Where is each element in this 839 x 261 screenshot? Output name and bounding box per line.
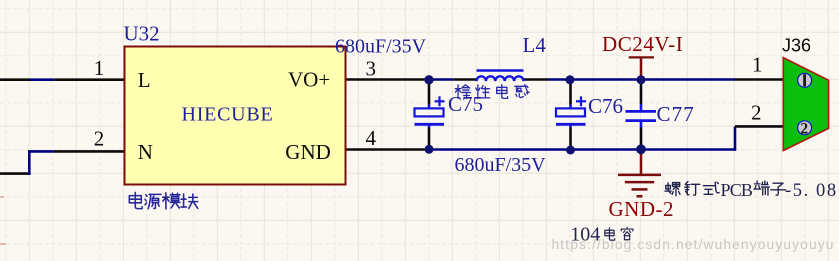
svg-text:DC24V-I: DC24V-I <box>602 32 683 56</box>
svg-text:PCB: PCB <box>721 180 753 200</box>
svg-text:-5. 08: -5. 08 <box>785 181 838 201</box>
svg-text:2: 2 <box>94 127 105 151</box>
svg-text:680uF/35V: 680uF/35V <box>455 154 547 176</box>
svg-text:L: L <box>138 68 151 92</box>
svg-text:2: 2 <box>751 101 762 125</box>
svg-text:C76: C76 <box>588 94 623 118</box>
svg-text:104: 104 <box>570 223 600 245</box>
svg-text:C77: C77 <box>657 102 695 126</box>
svg-text:U32: U32 <box>124 21 160 45</box>
svg-text:3: 3 <box>366 57 377 81</box>
svg-text:VO+: VO+ <box>288 68 330 92</box>
svg-text:1: 1 <box>94 56 105 80</box>
svg-text:GND-2: GND-2 <box>609 197 675 221</box>
svg-text:HIECUBE: HIECUBE <box>182 104 274 126</box>
svg-text:J36: J36 <box>782 35 811 55</box>
svg-text:1: 1 <box>752 53 763 77</box>
svg-text:L4: L4 <box>523 33 547 57</box>
svg-text:4: 4 <box>366 126 377 150</box>
svg-text:GND: GND <box>285 140 331 164</box>
svg-text:N: N <box>138 140 153 164</box>
svg-text:2: 2 <box>800 120 808 137</box>
svg-text:680uF/35V: 680uF/35V <box>335 35 427 57</box>
